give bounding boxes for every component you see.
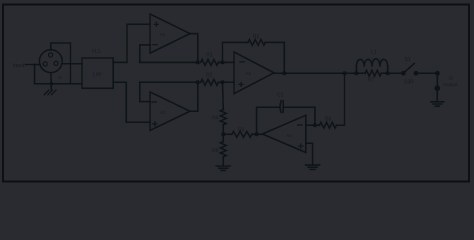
junction C1 tap: [255, 132, 259, 136]
wire S1 to J2: [416, 72, 438, 74]
resistor R7: [356, 70, 387, 83]
junction A1 out: [196, 60, 200, 64]
junction L1 left: [354, 71, 358, 75]
wire J1 bottom pin to ground: [50, 73, 53, 90]
wire A4 inverting input: [306, 124, 320, 126]
svg-text:A2: A2: [160, 110, 166, 115]
svg-text:A1: A1: [160, 32, 166, 37]
junction A2 out: [196, 80, 200, 84]
switch S1: [401, 57, 418, 85]
ground under R6: [222, 157, 224, 166]
resistor R3 feedback: [223, 34, 285, 73]
junction R1/R3: [221, 60, 225, 64]
wire A1 feedback: [140, 45, 150, 63]
svg-text:S3R: S3R: [404, 79, 414, 85]
wire LPF lower out to A2+: [113, 82, 150, 122]
ground chassis under J1: [44, 90, 56, 95]
wire input to J1: [26, 64, 41, 66]
connector J1: [39, 50, 62, 80]
wire R1 to A3: [218, 61, 234, 63]
op-amp A2: [150, 92, 190, 130]
resistor R8: [320, 117, 337, 128]
svg-text:Input: Input: [13, 63, 25, 69]
border frame: [3, 5, 469, 182]
resistor R2: [201, 72, 219, 85]
wire A4 + to ground: [306, 143, 313, 165]
ground under A4: [306, 164, 320, 166]
junction divider node: [222, 125, 224, 142]
svg-text:R5: R5: [238, 128, 245, 134]
filter FL1: [82, 49, 113, 89]
svg-text:LPF: LPF: [93, 72, 102, 78]
svg-text:R8: R8: [325, 117, 332, 123]
svg-text:C1: C1: [277, 92, 284, 98]
wire J2 to ground: [436, 88, 438, 101]
op-amp A3: [234, 52, 274, 94]
resistor R4: [212, 82, 226, 125]
svg-text:R4: R4: [212, 116, 219, 122]
wire R2 to A3: [218, 81, 234, 83]
op-amp A4: [262, 115, 306, 152]
wire A2 feedback: [140, 82, 150, 101]
svg-text:J2: J2: [448, 75, 453, 80]
ground under J2: [431, 101, 444, 103]
wire J1 right pin to LPF: [62, 63, 82, 65]
wire A3 output main line: [274, 72, 356, 74]
junction R8/main: [343, 71, 347, 75]
svg-text:R2: R2: [206, 72, 213, 78]
op-amp A1: [150, 14, 190, 53]
svg-text:R3: R3: [253, 34, 260, 40]
wire A1 output: [190, 34, 198, 63]
svg-text:Output: Output: [443, 82, 458, 87]
inductor L1: [356, 49, 387, 73]
junction J1 ground: [50, 82, 54, 86]
svg-text:L1: L1: [371, 49, 377, 55]
wire shield line to LPF: [35, 83, 82, 85]
junction R2/R4: [221, 80, 225, 84]
svg-text:J1: J1: [58, 75, 63, 80]
junction L1 right: [386, 71, 390, 75]
capacitor C1: [257, 92, 315, 134]
svg-text:S1: S1: [404, 57, 410, 63]
wire L1 to S1: [388, 72, 404, 74]
resistor R1: [201, 52, 219, 65]
wire J1 left pin down: [34, 65, 36, 84]
svg-text:R7: R7: [368, 77, 375, 83]
svg-text:A3: A3: [245, 71, 251, 76]
svg-text:R1: R1: [206, 52, 213, 58]
resistor R5: [223, 128, 262, 138]
svg-text:R6: R6: [212, 148, 219, 154]
wire LPF upper out to A1+: [113, 24, 150, 62]
wire R8 to main line: [337, 73, 345, 125]
resistor R6: [212, 142, 226, 157]
junction C1/R8: [313, 123, 317, 127]
connector J2: [435, 71, 458, 91]
svg-text:A4: A4: [286, 133, 292, 138]
svg-text:FL1: FL1: [92, 49, 101, 55]
wire A2 output: [190, 82, 198, 111]
junction A3 out / R3: [282, 71, 286, 75]
wire J1 top shield loop: [51, 43, 71, 84]
